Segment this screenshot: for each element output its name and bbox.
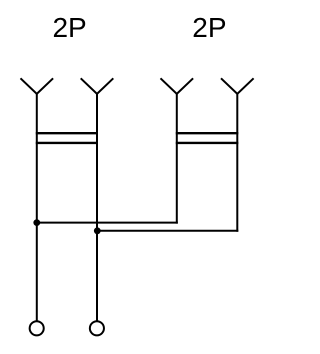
svg-text:2P: 2P (52, 12, 86, 43)
node junction dot A (33, 219, 40, 226)
wire pole 1 vertical (36, 94, 38, 321)
fork contact pole 4 (221, 78, 254, 94)
linkage bar upper (left pole pair) (36, 132, 98, 134)
linkage bar upper (right pole pair) (176, 132, 239, 134)
fork contact pole 1 (21, 78, 54, 94)
terminal circle 2 (90, 321, 104, 335)
svg-text:2P: 2P (192, 12, 226, 43)
terminal circle 1 (30, 321, 44, 335)
wire pole 4 vertical (236, 94, 238, 232)
wire bus B horizontal (pole 2 to pole 4) (97, 230, 238, 232)
linkage bar lower (right pole pair) (176, 142, 239, 144)
fork contact pole 2 (81, 78, 114, 94)
fork contact pole 3 (161, 78, 194, 94)
wire pole 2 vertical (96, 94, 98, 321)
node junction dot B (94, 227, 101, 234)
linkage bar lower (left pole pair) (36, 142, 98, 144)
wire pole 3 vertical (176, 94, 178, 224)
wire bus A horizontal (pole 1 to pole 3) (37, 222, 178, 224)
